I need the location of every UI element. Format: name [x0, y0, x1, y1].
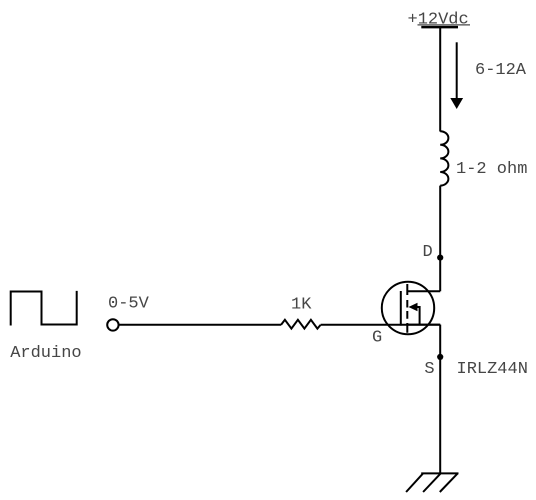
transistor Q1 drain lead [407, 290, 440, 292]
svg-text:0-5V: 0-5V [108, 294, 150, 313]
svg-text:1-2 ohm: 1-2 ohm [456, 160, 527, 179]
ground [406, 473, 458, 492]
wire terminal to resistor [120, 324, 282, 326]
wire inductor to drain [439, 186, 441, 292]
svg-text:D: D [423, 243, 433, 262]
terminal circle [107, 319, 118, 330]
wire rail to inductor [439, 28, 441, 132]
current arrow shaft [456, 42, 458, 99]
transistor Q1 source lead [407, 324, 440, 326]
transistor Q1 body arrow [409, 303, 418, 312]
svg-text:6-12A: 6-12A [475, 61, 527, 80]
node S junction dot [437, 354, 443, 360]
wire resistor to gate [321, 324, 441, 326]
svg-text:G: G [372, 329, 382, 348]
current arrow head [450, 98, 463, 109]
svg-text:Arduino: Arduino [10, 344, 81, 363]
inductor L1 1-2 ohm [440, 131, 448, 185]
svg-text:S: S [424, 360, 434, 379]
transistor Q1 gate bar [400, 291, 402, 326]
transistor Q1 IRLZ44N body circle [382, 282, 434, 334]
transistor Q1 channel (dashed) [406, 284, 408, 333]
net +12Vdc underline [418, 24, 471, 26]
svg-text:1K: 1K [291, 296, 312, 315]
square wave source Arduino [11, 291, 77, 326]
svg-text:IRLZ44N: IRLZ44N [457, 360, 528, 379]
node D junction dot [437, 255, 443, 261]
resistor R1 1K [281, 320, 321, 329]
transistor Q1 body connection [418, 307, 420, 325]
wire source to ground [439, 325, 441, 474]
power rail +12Vdc bar [421, 26, 458, 29]
